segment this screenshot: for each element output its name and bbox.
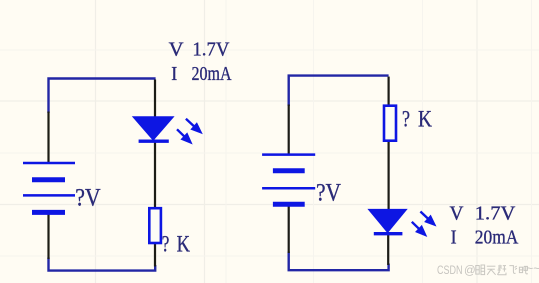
svg-text:K: K <box>177 232 191 257</box>
LED D1 light arrow 2 <box>177 129 192 143</box>
resistor R1 <box>149 208 161 243</box>
svg-text:K: K <box>418 106 432 131</box>
svg-text:?V: ?V <box>316 177 341 206</box>
wire pin resistor to bottom (black) <box>154 243 156 267</box>
battery B1 <box>23 163 75 212</box>
wire pin LED to bottom (black) <box>387 235 389 265</box>
LED D1 cathode bar <box>139 139 169 142</box>
wire bottom: bottom horizontal + corners <box>49 258 156 271</box>
wire pin battery top (black) <box>47 112 49 163</box>
起 <box>497 265 506 275</box>
svg-text:20mA: 20mA <box>192 63 232 85</box>
svg-text:1.7V: 1.7V <box>475 202 516 224</box>
明 <box>476 266 479 275</box>
LED D2 light arrow 1 <box>420 212 435 226</box>
svg-text:?V: ?V <box>75 183 101 212</box>
wire top-left: left vertical + top horizontal <box>49 79 156 114</box>
LED D2 cathode bar <box>374 232 403 235</box>
svg-text:I: I <box>171 63 177 85</box>
svg-text:V: V <box>450 202 465 224</box>
wire top-left: left vertical + top horizontal <box>289 76 389 106</box>
resistor R2 <box>384 106 396 141</box>
天 <box>487 265 496 267</box>
飞 <box>509 266 517 274</box>
watermark CSDN <box>437 264 539 278</box>
svg-text:V: V <box>169 38 185 60</box>
battery B2 <box>262 155 315 205</box>
wire pin corner to resistor (black) <box>388 77 390 106</box>
LED D2 light arrow 2 <box>412 222 427 236</box>
LED D1 light arrow 1 <box>186 119 202 134</box>
wire bottom: bottom horizontal + corners <box>289 252 389 271</box>
wire pin battery bottom (black) <box>288 206 290 253</box>
吧 <box>519 267 522 272</box>
svg-text:~~: ~~ <box>527 264 539 276</box>
LED D2 triangle <box>367 209 407 233</box>
wire pin LED to resistor (black) <box>154 142 156 209</box>
pseudo CJK glyphs 明天起飞吧 <box>476 265 528 275</box>
LED D1 triangle <box>132 116 175 141</box>
svg-text:1.7V: 1.7V <box>192 38 230 60</box>
wire pin resistor to LED (black) <box>388 141 390 210</box>
svg-text:?: ? <box>162 232 170 257</box>
svg-text:?: ? <box>402 106 410 131</box>
wire pin battery top (black) <box>288 105 290 154</box>
svg-text:I: I <box>451 227 457 249</box>
svg-text:CSDN: CSDN <box>437 265 463 277</box>
svg-text:@: @ <box>464 265 476 277</box>
wire pin corner to LED (black) <box>154 80 156 118</box>
wire pin battery bottom (black) <box>47 214 49 259</box>
svg-text:20mA: 20mA <box>475 226 519 248</box>
